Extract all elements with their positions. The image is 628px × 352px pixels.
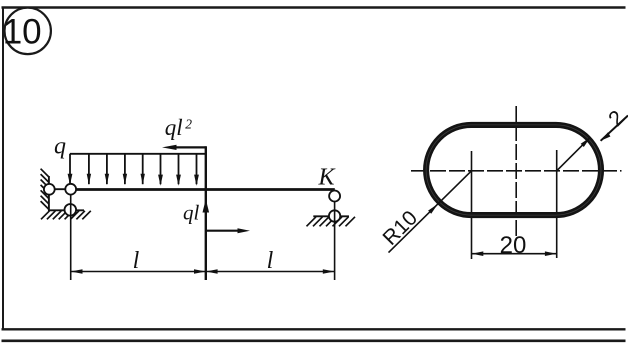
R10 arrowhead — [428, 204, 438, 214]
lower rule — [2, 339, 626, 342]
right ground hatching — [307, 217, 356, 227]
wall hatching — [41, 169, 49, 210]
thickness inner arrowhead — [581, 137, 591, 147]
central bracket vertical line — [205, 146, 207, 280]
svg-text:K: K — [317, 164, 336, 190]
beam end hinge circle — [65, 184, 76, 195]
vertical centerline — [515, 106, 517, 240]
thickness leader inner segment — [557, 137, 591, 171]
right ground line — [313, 215, 349, 217]
left roller circle on wall — [44, 184, 55, 195]
frame top border — [2, 6, 626, 8]
link wall to beam end — [49, 188, 66, 190]
svg-text:q: q — [54, 134, 66, 160]
svg-text:20: 20 — [500, 232, 527, 259]
obround wall core highlight — [426, 125, 601, 215]
svg-text:ql: ql — [183, 201, 200, 225]
force ql up arrowhead — [203, 199, 210, 213]
distributed load top line — [70, 153, 206, 155]
svg-text:10: 10 — [3, 12, 42, 51]
thickness leader outer segment — [601, 116, 628, 141]
right support link / extension line — [334, 202, 336, 281]
distributed load arrows — [68, 154, 199, 186]
right arc centre line / extension — [556, 150, 558, 258]
dimension 20 line — [472, 253, 557, 255]
right support upper circle — [329, 191, 340, 202]
wall face line — [48, 176, 50, 210]
dimension line l + l — [71, 271, 335, 273]
thickness outer arrowhead — [601, 132, 611, 141]
left lower roller circle — [65, 204, 77, 216]
left arc centre line / extension — [471, 151, 473, 259]
moment arrow ql2 — [173, 146, 206, 148]
left support vertical link / extension line — [70, 195, 72, 281]
task number badge circle 10 — [5, 8, 51, 54]
frame left border — [2, 7, 4, 330]
svg-text:l: l — [133, 248, 140, 274]
left ground line — [48, 209, 84, 211]
horizontal arrow right — [206, 230, 240, 232]
beam — [71, 188, 335, 191]
R10 leader line — [389, 171, 472, 253]
svg-text:ql: ql — [165, 115, 183, 140]
horizontal centerline — [411, 170, 622, 172]
obround outer contour — [426, 125, 601, 215]
left ground hatching — [41, 211, 91, 220]
svg-text:2: 2 — [185, 116, 192, 131]
svg-text:l: l — [267, 248, 274, 274]
right support lower circle — [329, 210, 340, 221]
frame bottom border — [2, 328, 626, 330]
